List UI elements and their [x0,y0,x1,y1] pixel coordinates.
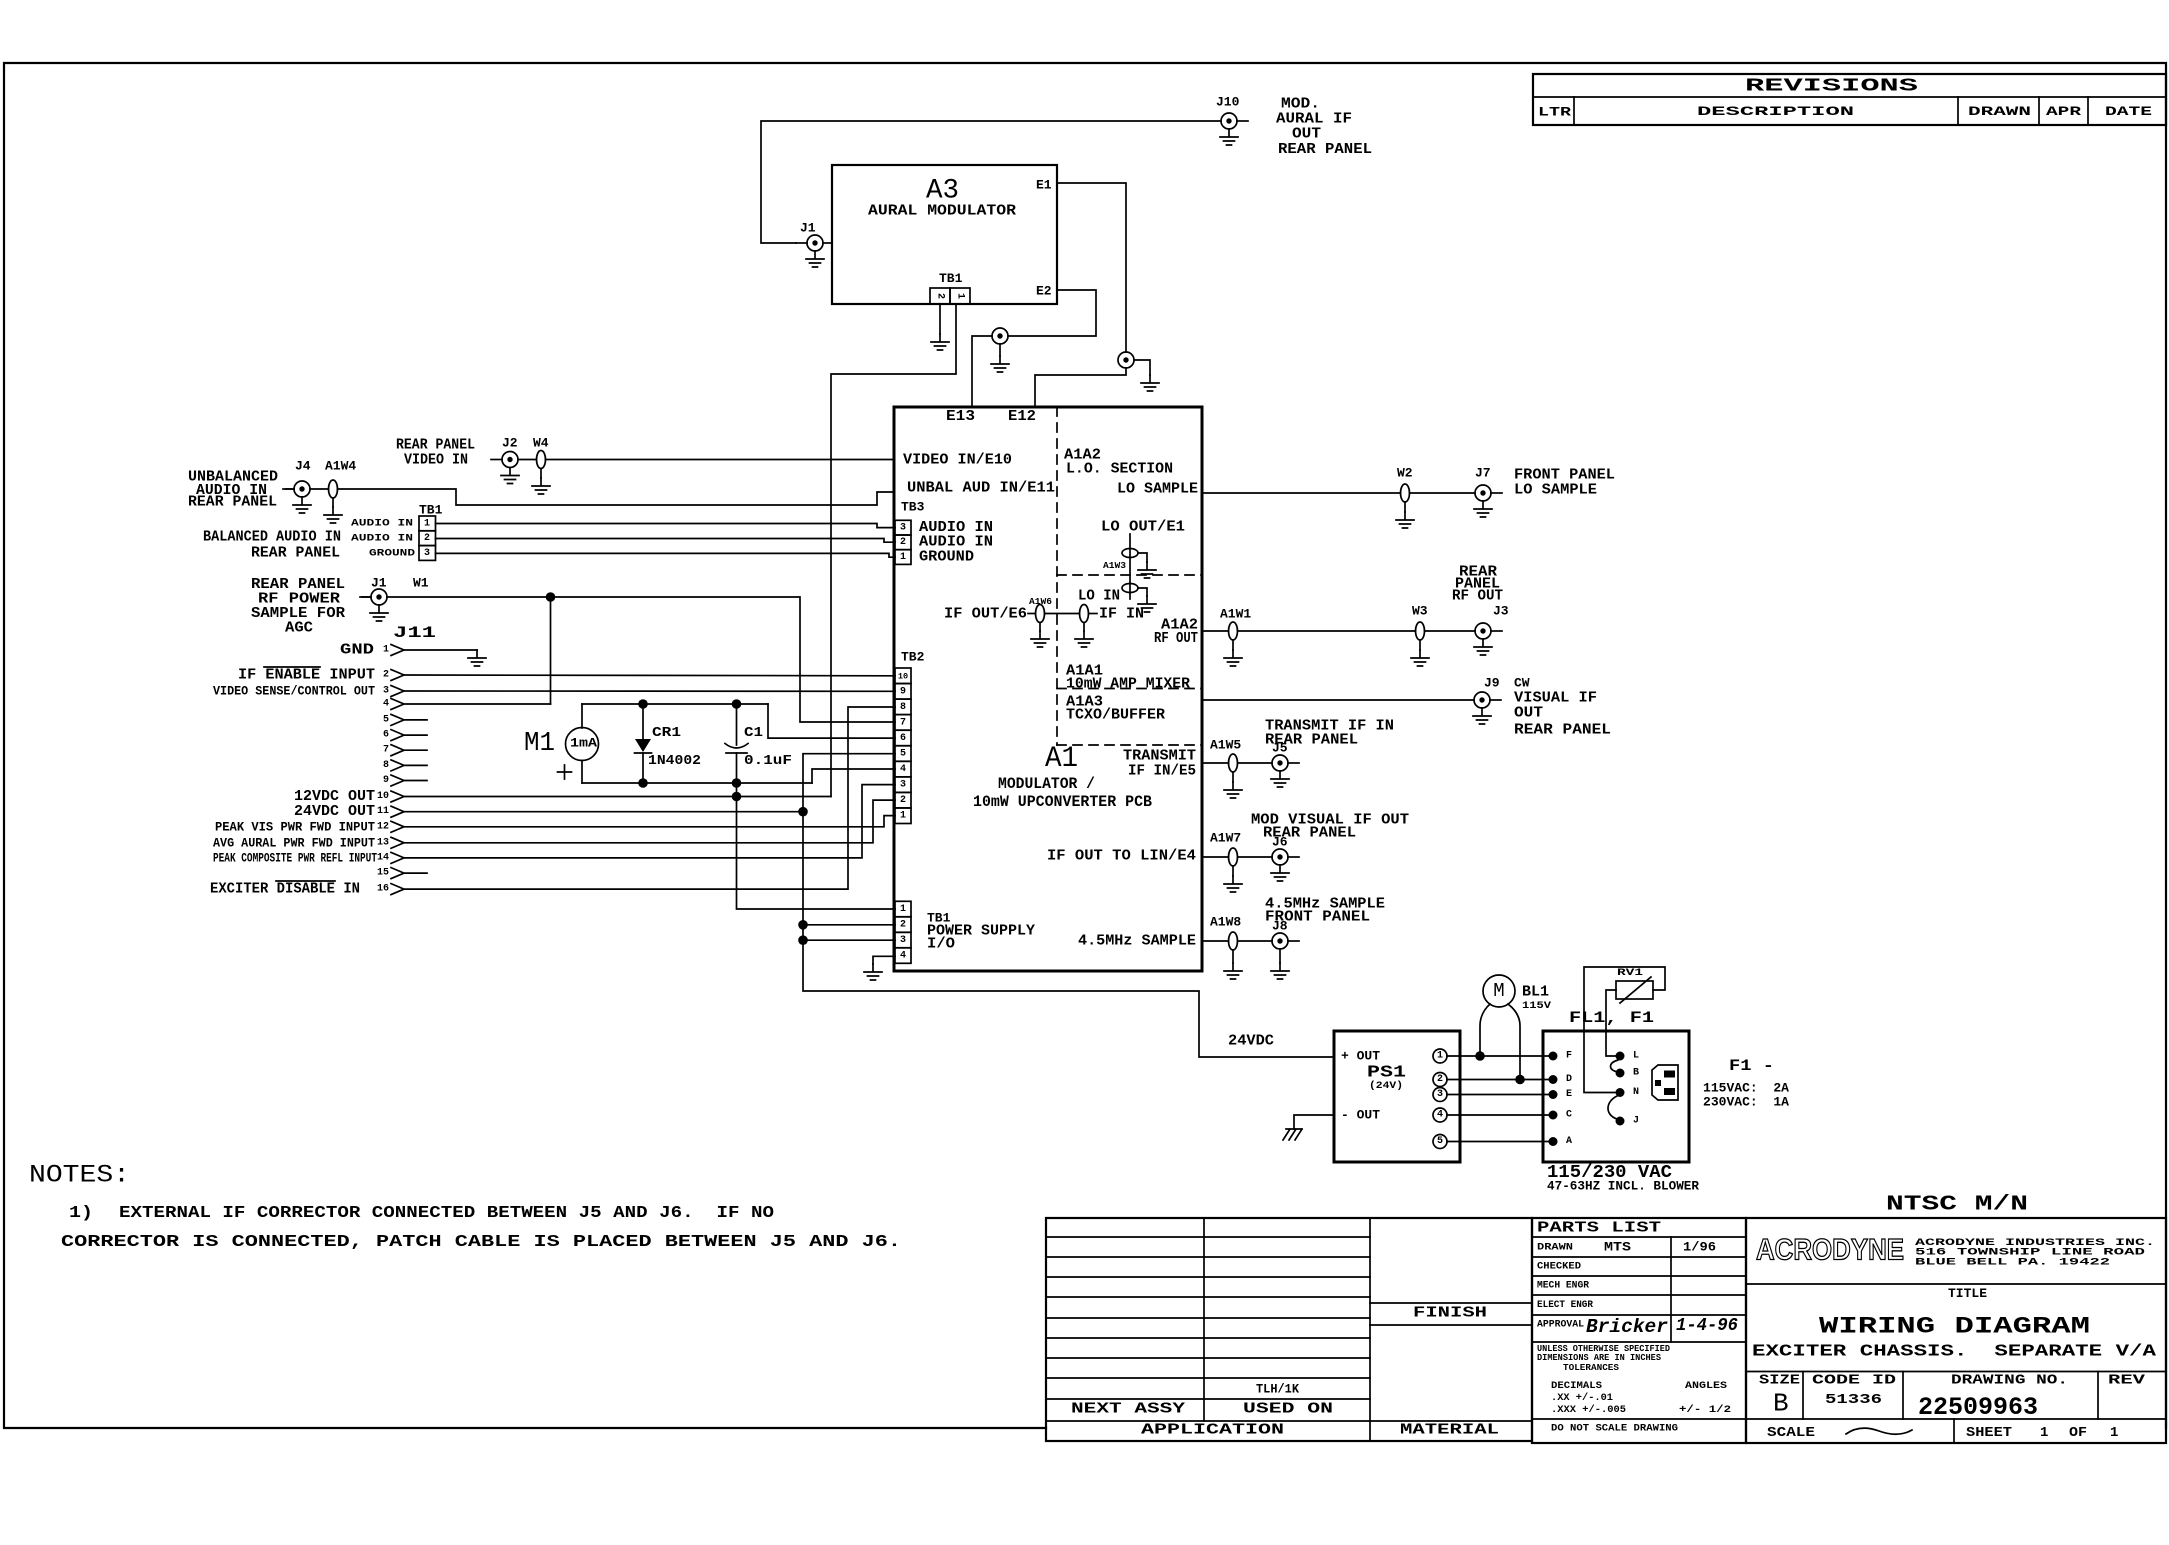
label IF OUT/E6 [944,606,1027,623]
wire PS1 minus out to chassis ground [1294,1115,1334,1129]
wire bottom rail to TB2-4 [812,769,895,783]
svg-text:MATERIAL: MATERIAL [1400,1422,1499,1439]
svg-text:J2: J2 [502,436,518,451]
junction dot pin10 C1 branch [732,792,742,802]
svg-text:FL1, F1: FL1, F1 [1569,1009,1654,1027]
wire J1 to J10 [761,121,1221,243]
svg-text:4: 4 [900,764,906,775]
svg-text:FRONT PANEL: FRONT PANEL [1265,909,1370,926]
svg-text:15: 15 [377,868,389,879]
wire visual IF out to J9 [1202,699,1474,701]
svg-text:1: 1 [2040,1425,2048,1441]
wire pin3 to TB2-9 [405,690,895,692]
PS1 terminal 1 [1433,1049,1447,1063]
label IF IN [1099,606,1144,623]
label MOD. AURAL IF OUT REAR PANEL [1276,96,1372,159]
svg-text:5: 5 [1437,1136,1443,1147]
wire PS1-3 to FL1 E [1447,1094,1553,1096]
svg-text:REVISIONS: REVISIONS [1745,77,1918,97]
svg-text:24VDC OUT: 24VDC OUT [294,803,375,820]
svg-text:F: F [1566,1051,1572,1062]
J11 pin 11 24VDC OUT [294,803,404,820]
wire TB1-2 of A3 to ground [939,304,941,334]
svg-text:USED ON: USED ON [1243,1401,1333,1418]
svg-text:BALANCED AUDIO IN: BALANCED AUDIO IN [203,529,341,546]
svg-text:(24V): (24V) [1369,1080,1403,1092]
drawing number 22509963 [1918,1393,2038,1422]
svg-text:W4: W4 [533,436,549,451]
connector J7 [1475,466,1502,502]
wire pin4 to W1 junction [405,703,551,705]
svg-text:1mA: 1mA [570,737,598,751]
node E1 of A3 [1036,178,1052,193]
svg-text:APPLICATION: APPLICATION [1141,1422,1284,1439]
FL1 pin E [1549,1089,1573,1100]
junction dot TB1-2 tap [798,920,808,930]
connector J9 [1474,676,1501,709]
svg-text:AGC: AGC [285,620,313,637]
connector J3 [1475,604,1509,640]
dashed divider tcxo [1057,744,1202,746]
svg-text:IF IN: IF IN [1099,606,1144,623]
svg-text:W3: W3 [1412,604,1428,619]
label GROUND TB3-1 [919,549,974,566]
label GROUND pin3 [369,547,415,559]
svg-text:E1: E1 [1036,178,1052,193]
row ELECT ENGR [1537,1299,1594,1311]
wire TB1-1 to TB3-3 [436,524,896,528]
svg-text:C1: C1 [744,725,763,741]
row APPROVAL signature [1537,1316,1738,1338]
J11 pin 14 PEAK COMPOSITE PWR REFL INPUT [213,850,404,865]
svg-text:IF OUT TO LIN/E4: IF OUT TO LIN/E4 [1047,848,1196,865]
svg-text:47-63HZ INCL. BLOWER: 47-63HZ INCL. BLOWER [1547,1179,1699,1194]
svg-text:PARTS LIST: PARTS LIST [1537,1220,1661,1237]
svg-text:1: 1 [900,811,906,822]
varistor RV1 [1616,967,1653,1003]
svg-text:6: 6 [383,730,389,741]
label A1A2 L.O. SECTION [1064,447,1173,478]
svg-text:REAR PANEL: REAR PANEL [188,494,277,511]
svg-text:J4: J4 [295,459,311,474]
connector J6 [1272,835,1299,866]
terminal block TB3 of A1 [895,500,925,565]
notes heading [29,1161,130,1190]
svg-text:J1: J1 [371,576,387,591]
ground at J1 [806,251,824,267]
svg-text:TCXO/BUFFER: TCXO/BUFFER [1066,707,1165,724]
cable W2 [1397,466,1413,503]
svg-text:M1: M1 [524,729,555,759]
svg-text:A1W1: A1W1 [1220,607,1251,622]
wire E2 feedthrough to E13 [972,336,992,407]
svg-text:IF ENABLE INPUT: IF ENABLE INPUT [238,667,375,684]
J11 pin 2 IF ENABLE INPUT [238,667,404,684]
svg-text:F1 -: F1 - [1729,1057,1774,1075]
row MECH ENGR [1537,1280,1590,1292]
svg-text:CHECKED: CHECKED [1537,1261,1581,1273]
label TB1 POWER SUPPLY I/O [927,911,1035,953]
svg-text:2: 2 [383,670,389,681]
svg-text:2: 2 [424,533,430,544]
scale row [1767,1425,2118,1441]
svg-text:7: 7 [900,717,906,728]
FL1 pin L [1616,1051,1640,1062]
svg-text:14: 14 [377,852,389,863]
svg-text:REAR PANEL: REAR PANEL [1514,722,1611,739]
svg-text:PEAK COMPOSITE PWR REFL INPUT: PEAK COMPOSITE PWR REFL INPUT [213,850,377,865]
ground at J11 pin1 [468,650,486,666]
application table [1046,1218,1532,1441]
svg-text:ACRODYNE: ACRODYNE [1756,1234,1904,1267]
svg-text:GROUND: GROUND [369,547,415,559]
wire E2 of A3 to feedthrough [1008,290,1096,336]
svg-text:5: 5 [383,714,389,725]
ground at W4 [532,469,550,495]
label REAR PANEL RF POWER SAMPLE FOR AGC [251,576,345,637]
svg-text:REAR PANEL: REAR PANEL [1263,825,1356,842]
FL1 pin J [1616,1116,1640,1127]
svg-text:1): 1) [69,1204,93,1223]
connector J8 [1272,919,1299,950]
svg-text:W2: W2 [1397,466,1413,481]
size B [1773,1389,1789,1419]
feedthrough A1W3 [1103,534,1138,599]
label CW VISUAL IF OUT REAR PANEL [1514,676,1611,739]
wire A3 TB1-1 down to 12VDC rail [831,304,956,797]
ground at A1W4 [324,498,342,523]
wire A1W6 to IF IN feedthrough [1045,613,1080,615]
svg-text:TB1: TB1 [939,271,963,286]
wire RF OUT to J3 [1202,630,1475,632]
svg-text:REAR PANEL: REAR PANEL [1265,732,1358,749]
svg-text:A1W6: A1W6 [1029,597,1052,607]
svg-text:4: 4 [900,951,906,962]
label FINISH [1413,1305,1487,1322]
feedthrough LO IN [1122,584,1138,593]
24VDC riser wire TB2-5 to power supply [803,754,1334,1057]
svg-text:10mW AMP MIXER: 10mW AMP MIXER [1066,676,1190,693]
svg-text:A1W5: A1W5 [1210,738,1241,753]
label A1A1 10mW AMP MIXER [1066,663,1190,693]
IEC inlet connector [1652,1065,1678,1100]
J11 pin 3 VIDEO SENSE/CONTROL OUT [213,684,404,699]
svg-text:CR1: CR1 [652,725,681,741]
meter M1 [524,704,599,783]
J11 pin 7 [383,745,427,756]
svg-text:10mW UPCONVERTER PCB: 10mW UPCONVERTER PCB [973,793,1152,811]
wire TB1-2 to TB3-2 [436,539,896,543]
svg-text:A1W7: A1W7 [1210,831,1241,846]
svg-text:UNBAL AUD IN/E11: UNBAL AUD IN/E11 [907,480,1055,497]
svg-text:3: 3 [1437,1089,1443,1100]
jumper arc L to B [1611,1060,1619,1072]
svg-text:AVG AURAL PWR FWD INPUT: AVG AURAL PWR FWD INPUT [213,835,375,850]
svg-text:M: M [1493,980,1504,1002]
wire W1 junction down to J11 pin4 [550,597,552,704]
connector J1 [796,221,823,252]
svg-text:MODULATOR /: MODULATOR / [998,775,1095,793]
cable A1W8 [1210,915,1241,951]
svg-text:J: J [1633,1116,1639,1127]
row CHECKED [1537,1261,1581,1273]
FL1 pin C [1549,1110,1573,1121]
wire pin14 to TB2-3 [405,785,895,858]
svg-text:A: A [1566,1136,1572,1147]
PS1 terminal 2 [1433,1073,1447,1087]
J11 pin 10 12VDC OUT [294,788,404,805]
svg-text:E13: E13 [946,408,975,425]
svg-text:APR: APR [2046,105,2082,119]
svg-text:GROUND: GROUND [919,549,974,566]
ground at A1W8 [1224,950,1242,979]
connector J10 [1216,95,1248,130]
svg-text:- OUT: - OUT [1341,1108,1380,1123]
wire C1 bottom to TB1-1 of A1 [737,783,896,909]
connector J11 [393,624,436,642]
terminal block TB1 of A3 [930,271,970,304]
svg-text:2: 2 [1437,1074,1443,1085]
label USED ON [1243,1401,1333,1418]
J11 pin 16 EXCITER DISABLE IN [210,881,404,898]
wire PS1-5 to FL1 A [1447,1141,1553,1143]
svg-text:.XX +/-.01: .XX +/-.01 [1551,1392,1613,1404]
svg-text:A1W8: A1W8 [1210,915,1241,930]
svg-text:SCALE: SCALE [1767,1425,1815,1441]
wire J1 to A3 left edge [823,242,832,244]
ground at A1W1 [1224,640,1242,666]
wire tap to TB1-3 of A1 [803,939,895,941]
modulator upconverter A1 [894,407,1202,971]
svg-text:J1: J1 [800,221,816,236]
meter top rail [582,703,768,705]
ground at A3 TB1-2 [931,334,949,350]
svg-text:LO IN: LO IN [1078,588,1120,605]
svg-text:7: 7 [383,745,389,756]
blower lead right [1508,1004,1520,1080]
svg-text:VIDEO SENSE/CONTROL OUT: VIDEO SENSE/CONTROL OUT [213,684,375,699]
label A1 [1045,742,1078,776]
wire video in to A1 E10 [518,459,894,461]
wire pin1 to ground [405,649,477,651]
row DRAWN MTS 1/96 [1537,1240,1716,1255]
wire pin11 to 24VDC riser [405,811,803,813]
size code id drawing no rev headers [1759,1373,2146,1389]
ground at J2 [501,468,519,484]
svg-text:AUDIO IN: AUDIO IN [351,533,413,545]
svg-text:24VDC: 24VDC [1228,1033,1274,1050]
diode CR1 [635,704,702,783]
ground at TB1-4 [864,964,882,980]
svg-text:1: 1 [900,552,906,563]
wire pin2 to TB2-10 [405,674,895,677]
svg-text:ELECT ENGR: ELECT ENGR [1537,1299,1594,1311]
svg-text:IF IN/E5: IF IN/E5 [1128,763,1196,780]
wire pin10 to A3 supply riser [405,796,831,798]
wire transmit IF in to J5 [1202,762,1272,764]
ground at A1W5 [1224,772,1242,798]
label LO OUT/E1 [1101,519,1185,536]
svg-text:4: 4 [383,699,389,710]
svg-text:J11: J11 [393,624,436,642]
svg-text:4: 4 [1437,1110,1443,1121]
connector J5 [1272,741,1299,772]
svg-text:CORRECTOR IS CONNECTED, PATCH: CORRECTOR IS CONNECTED, PATCH CABLE IS P… [61,1233,901,1252]
label NEXT ASSY [1071,1401,1185,1418]
J11 pin 15 [377,868,427,879]
svg-text:D: D [1566,1074,1572,1085]
svg-text:0.1uF: 0.1uF [744,753,792,769]
svg-text:B: B [1773,1389,1789,1419]
revisions column headers [1538,105,2152,120]
svg-text:WIRING DIAGRAM: WIRING DIAGRAM [1819,1314,2090,1340]
label TRANSMIT IF IN/E5 [1123,748,1196,780]
label NTSC M/N [1886,1194,2028,1217]
svg-text:E12: E12 [1008,408,1036,425]
svg-text:8: 8 [383,760,389,771]
svg-text:CW: CW [1514,676,1530,691]
title text [1752,1286,2157,1361]
svg-text:51336: 51336 [1825,1392,1882,1408]
code id 51336 [1825,1392,1882,1408]
svg-text:OF: OF [2069,1425,2087,1441]
svg-text:TLH/1K: TLH/1K [1256,1382,1299,1397]
wire E1 of A3 to feedthrough [1057,183,1126,352]
label TRANSMIT IF IN REAR PANEL [1265,718,1394,749]
node E13 [946,408,975,425]
svg-text:AURAL MODULATOR: AURAL MODULATOR [868,203,1016,220]
label MODULATOR / [998,775,1095,793]
svg-text:LO SAMPLE: LO SAMPLE [1117,481,1198,498]
cable A1W5 [1210,738,1241,773]
label REAR PANEL VIDEO IN [396,437,475,469]
svg-text:DRAWN: DRAWN [1968,105,2031,119]
svg-text:22509963: 22509963 [1918,1393,2038,1422]
ground at J10 [1220,129,1238,145]
label TLH/1K [1256,1382,1299,1397]
svg-text:A1: A1 [1045,742,1078,776]
svg-text:OUT: OUT [1292,126,1321,143]
ACRODYNE logo [1756,1234,1904,1267]
svg-text:IF OUT/E6: IF OUT/E6 [944,606,1027,623]
meter bottom rail [582,782,812,784]
wire W1 rf power sample [387,576,895,723]
J11 pin 12 PEAK VIS PWR FWD INPUT [215,819,404,834]
terminal block TB1 of A1 [895,901,911,963]
svg-text:VIDEO IN/E10: VIDEO IN/E10 [903,452,1012,469]
svg-text:CODE ID: CODE ID [1812,1373,1896,1389]
svg-text:C: C [1566,1110,1572,1121]
svg-text:A1W3: A1W3 [1103,561,1126,571]
connector J1 rf power sample [360,576,387,606]
svg-text:DRAWN: DRAWN [1537,1242,1573,1254]
svg-text:+/- 1/2: +/- 1/2 [1679,1404,1731,1416]
svg-text:6: 6 [900,733,906,744]
junction dot TB1-3 tap [798,935,808,945]
wire IF out to lin to J6 [1202,856,1272,858]
company address [1915,1237,2155,1268]
wire pin12 to TB2-1 [405,816,895,827]
svg-text:1: 1 [424,518,430,529]
svg-text:FINISH: FINISH [1413,1305,1487,1322]
svg-text:REV: REV [2108,1373,2146,1389]
junction dots C1 [732,699,742,788]
svg-text:VIDEO IN: VIDEO IN [404,452,468,469]
svg-text:DATE: DATE [2105,105,2152,119]
feedthrough connector on E2 line [992,328,1008,344]
wire 4.5MHz sample to J8 [1202,940,1272,942]
svg-text:2: 2 [900,795,906,806]
svg-text:MECH ENGR: MECH ENGR [1537,1280,1590,1292]
svg-text:DO NOT SCALE DRAWING: DO NOT SCALE DRAWING [1551,1422,1678,1434]
J11 pin 5 [383,714,427,725]
svg-text:APPROVAL: APPROVAL [1537,1319,1584,1331]
svg-text:EXCITER CHASSIS. SEPARATE V/A: EXCITER CHASSIS. SEPARATE V/A [1752,1343,2157,1362]
svg-text:115VAC: 2A: 115VAC: 2A [1703,1081,1789,1096]
junction dot blower right [1515,1075,1525,1085]
svg-text:SIZE: SIZE [1759,1373,1800,1389]
svg-text:3: 3 [900,935,906,946]
revisions table [1533,74,2166,125]
svg-text:TITLE: TITLE [1948,1286,1987,1301]
cable A1W4 [325,459,356,499]
label A1A2 RF OUT [1154,617,1198,648]
label F1 ratings [1703,1057,1789,1110]
J11 pin 8 [383,760,427,771]
svg-text:1: 1 [1437,1051,1443,1062]
parts list block [1532,1218,1746,1443]
junction dot blower left [1475,1051,1485,1061]
svg-text:I/O: I/O [927,936,955,953]
svg-text:LO SAMPLE: LO SAMPLE [1514,482,1597,499]
svg-text:LO OUT/E1: LO OUT/E1 [1101,519,1185,536]
dashed divider LO section vertical [1056,407,1058,745]
ground at LO IN feedthrough [1138,588,1156,612]
ground at A1W3 [1138,553,1156,578]
svg-text:L.O. SECTION: L.O. SECTION [1066,461,1173,478]
PS1 terminal 5 [1433,1135,1447,1149]
label A1W6 [1029,597,1052,607]
feedthrough connector on E1 line [1118,352,1134,368]
power supply PS1 [1334,1031,1460,1162]
svg-text:E2: E2 [1036,284,1052,299]
svg-text:J9: J9 [1484,676,1500,691]
svg-text:EXCITER DISABLE IN: EXCITER DISABLE IN [210,881,360,898]
svg-text:12: 12 [377,821,389,832]
svg-text:NOTES:: NOTES: [29,1161,130,1190]
node E12 [1008,408,1036,425]
ground at E2 feedthrough [991,344,1009,372]
svg-text:13: 13 [377,837,389,848]
svg-text:REAR PANEL: REAR PANEL [1278,141,1372,158]
svg-text:RF OUT: RF OUT [1154,630,1198,647]
svg-text:DRAWING NO.: DRAWING NO. [1951,1373,2068,1389]
junction dots CR1 [638,699,648,788]
ground at J7 [1474,501,1492,517]
FL1 pin D [1549,1074,1573,1085]
label AUDIO IN TB3-2 [919,534,993,551]
svg-text:OUT: OUT [1514,705,1543,722]
terminal block TB2 of A1 [895,650,925,824]
FL1 pin F [1549,1051,1573,1062]
wire TB1-3 to TB3-1 [436,553,896,557]
svg-text:GND: GND [340,642,374,659]
label LO SAMPLE [1117,481,1198,498]
connector J4 [283,459,311,498]
svg-text:A1W4: A1W4 [325,459,356,474]
svg-text:2: 2 [935,293,946,299]
label 4.5MHz SAMPLE [1078,933,1196,950]
